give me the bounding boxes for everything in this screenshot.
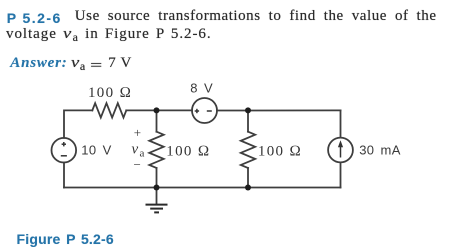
wire branch2 upper	[247, 110, 249, 131]
svg-text:100 Ω: 100 Ω	[88, 85, 132, 101]
plus sign in V2	[195, 110, 199, 112]
node A dot top	[154, 107, 160, 113]
svg-text:100 Ω: 100 Ω	[258, 144, 302, 160]
voltage source V2 8V	[192, 98, 217, 123]
voltage source V1 10V	[52, 138, 77, 163]
wire branch1 upper	[156, 110, 158, 131]
problem number P 5.2-6	[7, 10, 62, 26]
svg-text:100 Ω: 100 Ω	[166, 143, 210, 159]
minus sign in V1	[61, 155, 67, 157]
svg-text:8 V: 8 V	[190, 80, 213, 95]
svg-text:10 V: 10 V	[81, 142, 111, 157]
resistor R3 100ohm vertical	[241, 132, 255, 168]
problem text line 1	[75, 8, 437, 25]
wire left rail lower	[63, 163, 65, 188]
plus sign in V1	[62, 143, 66, 145]
ground bar 3	[154, 211, 159, 213]
wire right rail lower	[340, 162, 342, 187]
wire bottom rail	[64, 187, 341, 189]
svg-text:va: va	[132, 141, 146, 159]
ground stem	[156, 188, 158, 204]
current source arrow stem	[340, 144, 342, 158]
figure caption (cut off at bottom)	[17, 231, 114, 247]
wire branch2 lower	[247, 168, 249, 188]
problem text line 2	[6, 26, 212, 45]
ground bar 2	[150, 208, 163, 210]
resistor R2 100ohm vertical	[149, 132, 163, 168]
current source I1 30mA	[328, 138, 353, 163]
wire top right of 8V	[217, 109, 341, 111]
answer line	[10, 55, 67, 72]
wire top-left segment	[64, 110, 92, 137]
ground bar 1	[146, 204, 168, 206]
current source arrowhead	[338, 140, 343, 147]
svg-text:+: +	[134, 125, 143, 140]
node dot bottom left branch	[154, 185, 160, 191]
wire top middle	[126, 109, 192, 111]
svg-text:30 mA: 30 mA	[359, 143, 401, 158]
wire right rail upper	[340, 110, 342, 137]
wire branch1 lower	[156, 168, 158, 188]
node dot bottom right branch	[245, 185, 251, 191]
resistor R1 100ohm top	[92, 103, 126, 117]
node B dot top	[245, 107, 251, 113]
minus sign in V2	[207, 110, 212, 112]
